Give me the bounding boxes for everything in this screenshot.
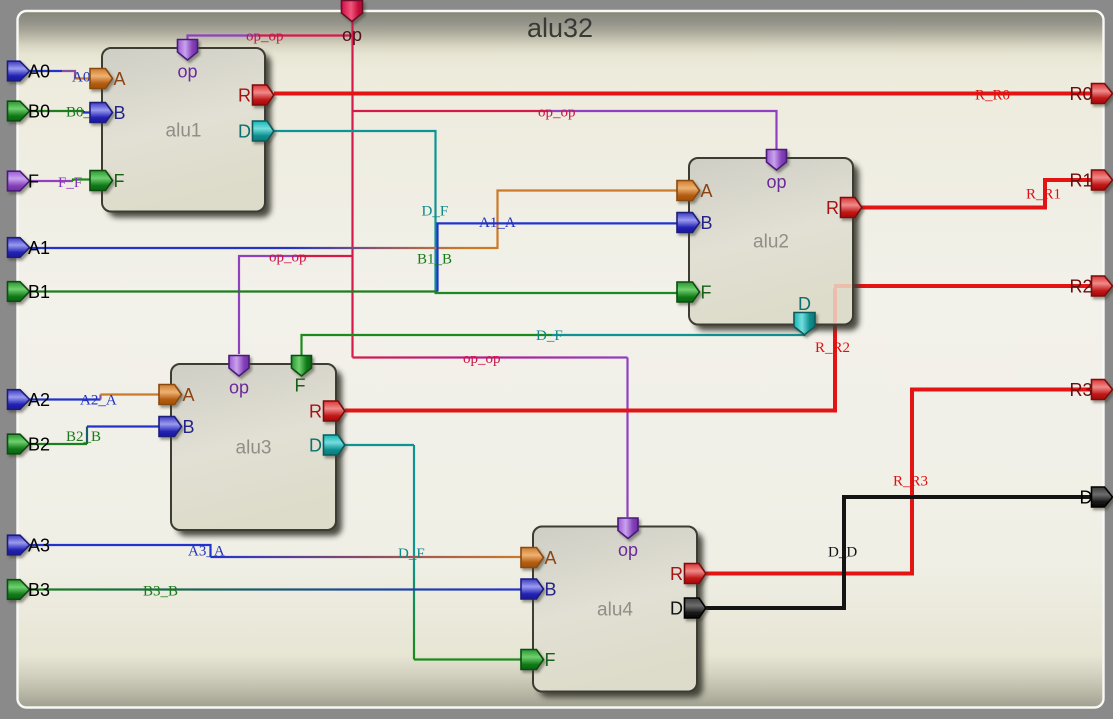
- svg-text:op_op: op_op: [246, 29, 284, 45]
- svg-text:B0: B0: [28, 102, 50, 122]
- wire A2_A: [27, 395, 162, 400]
- pin R of alu1: [253, 85, 274, 105]
- svg-text:R_R3: R_R3: [893, 474, 928, 490]
- port B0: [8, 101, 30, 121]
- wire D_D: [706, 497, 1092, 608]
- pin op of alu1: [178, 40, 198, 61]
- block alu2: [689, 158, 853, 325]
- svg-text:R0: R0: [1069, 84, 1092, 104]
- port B3: [8, 580, 30, 600]
- wire A3_A: [27, 545, 521, 557]
- svg-text:alu2: alu2: [753, 232, 789, 253]
- wire op_op to alu4 op: [353, 358, 628, 518]
- svg-text:op: op: [342, 25, 362, 45]
- pin R of alu4: [685, 564, 706, 584]
- port A1: [8, 238, 30, 258]
- port A3: [8, 535, 30, 555]
- port op (top): [342, 1, 363, 22]
- svg-text:R_R2: R_R2: [815, 340, 850, 356]
- port R3: [1092, 380, 1113, 400]
- svg-text:F: F: [545, 650, 556, 670]
- port A2: [8, 390, 30, 410]
- pin D of alu3: [324, 435, 345, 455]
- wire R_R2: [345, 286, 1092, 411]
- wire op_op to alu2 op: [353, 111, 777, 150]
- wire B2_B: [27, 427, 159, 445]
- svg-text:B1: B1: [28, 282, 50, 302]
- wire R_R1: [860, 180, 1092, 208]
- wire B0_B: [27, 111, 91, 113]
- svg-text:B2_B: B2_B: [66, 429, 101, 445]
- svg-text:D_D: D_D: [828, 545, 857, 561]
- svg-text:B1_B: B1_B: [417, 252, 452, 268]
- svg-text:B3_B: B3_B: [143, 584, 178, 600]
- pin A of alu1: [90, 69, 113, 89]
- pin F of alu2: [677, 282, 700, 302]
- svg-text:A1_A: A1_A: [479, 215, 516, 231]
- svg-text:R3: R3: [1069, 380, 1092, 400]
- svg-text:op_op: op_op: [538, 105, 576, 121]
- wire op_op to alu1 op: [188, 36, 353, 49]
- svg-text:D_F: D_F: [536, 328, 563, 344]
- pin B of alu4: [521, 579, 544, 599]
- svg-text:D: D: [238, 122, 251, 142]
- wire F_F: [27, 180, 91, 182]
- svg-text:R_R1: R_R1: [1026, 187, 1061, 203]
- block alu4: [533, 527, 697, 692]
- wire D_F alu1 D to alu2 F: [274, 131, 678, 293]
- port D: [1092, 487, 1113, 507]
- svg-text:R: R: [826, 198, 839, 218]
- block alu3 shadow: [177, 370, 342, 536]
- wire op net vertical from top port: [351, 21, 353, 358]
- svg-text:A3: A3: [28, 536, 50, 556]
- pin F of alu1: [90, 171, 113, 191]
- svg-text:op: op: [766, 172, 786, 192]
- wire B3_B: [27, 588, 521, 590]
- svg-text:R: R: [670, 564, 683, 584]
- wire R_R3: [706, 390, 1092, 574]
- wire B1_B: [27, 223, 678, 291]
- svg-text:A1: A1: [28, 238, 50, 258]
- svg-text:D_F: D_F: [422, 204, 449, 220]
- port A0: [8, 61, 30, 81]
- svg-text:F: F: [701, 283, 712, 303]
- svg-text:D: D: [670, 599, 683, 619]
- svg-text:B: B: [183, 417, 195, 437]
- svg-text:alu32: alu32: [527, 13, 593, 43]
- svg-text:A: A: [701, 181, 713, 201]
- wire D_F alu3 D to alu4 F: [345, 445, 521, 660]
- pin D of alu2 (bottom): [794, 313, 815, 335]
- svg-text:op: op: [618, 540, 638, 560]
- pin F of alu4: [521, 650, 544, 670]
- port R2: [1092, 276, 1113, 296]
- svg-text:R_R0: R_R0: [975, 88, 1010, 104]
- pin B of alu1: [90, 103, 113, 123]
- svg-text:op: op: [229, 378, 249, 398]
- block alu3: [171, 364, 336, 530]
- svg-text:op: op: [177, 62, 197, 82]
- svg-text:A2: A2: [28, 390, 50, 410]
- pin B of alu3: [159, 417, 182, 437]
- svg-text:A: A: [545, 548, 557, 568]
- svg-text:R1: R1: [1069, 171, 1092, 191]
- pin F of alu3 (top): [292, 356, 312, 377]
- svg-text:F: F: [28, 172, 39, 192]
- block alu4 shadow: [539, 533, 703, 698]
- pin op of alu4: [618, 518, 638, 539]
- port B2: [8, 434, 30, 454]
- svg-text:R: R: [238, 86, 251, 106]
- pin R of alu2: [841, 198, 862, 218]
- svg-text:alu1: alu1: [166, 121, 202, 142]
- wire op_op to alu3 op: [239, 256, 353, 354]
- svg-text:D: D: [798, 294, 811, 314]
- block alu1: [102, 48, 265, 212]
- block alu1 shadow: [108, 54, 271, 218]
- wire R_R0: [274, 92, 1092, 96]
- svg-text:op_op: op_op: [463, 351, 501, 367]
- block alu2 shadow: [695, 164, 859, 331]
- svg-text:B: B: [114, 103, 126, 123]
- pin B of alu2: [677, 213, 700, 233]
- svg-text:A: A: [183, 385, 195, 405]
- svg-text:D_F: D_F: [398, 546, 425, 562]
- pin A of alu3: [159, 385, 182, 405]
- pin op of alu2: [767, 150, 787, 171]
- svg-text:op_op: op_op: [269, 250, 307, 266]
- svg-text:B: B: [701, 213, 713, 233]
- svg-text:F: F: [114, 171, 125, 191]
- pin R of alu3: [324, 401, 345, 421]
- port R0: [1092, 84, 1113, 104]
- svg-text:R2: R2: [1069, 277, 1092, 297]
- pin A of alu4: [521, 548, 544, 568]
- wire D_F alu2 D to alu3 F: [302, 330, 805, 355]
- pin D of alu4: [685, 598, 706, 618]
- svg-text:R: R: [309, 402, 322, 422]
- pin D of alu1: [253, 121, 274, 141]
- svg-text:alu4: alu4: [597, 600, 633, 621]
- svg-text:A2_A: A2_A: [80, 393, 117, 409]
- svg-text:D: D: [309, 436, 322, 456]
- port F: [8, 171, 30, 191]
- faded R_R2 wire seen through alu2: [834, 286, 852, 323]
- svg-text:alu3: alu3: [236, 438, 272, 459]
- svg-text:B2: B2: [28, 435, 50, 455]
- svg-text:A3_A: A3_A: [188, 544, 225, 560]
- pin op of alu3: [229, 356, 249, 377]
- wire A0_A: [27, 71, 91, 79]
- svg-text:B: B: [545, 580, 557, 600]
- svg-text:B3: B3: [28, 580, 50, 600]
- svg-text:F_F: F_F: [58, 175, 82, 191]
- port B1: [8, 282, 30, 302]
- svg-text:D: D: [1080, 488, 1093, 508]
- wire A1_A: [27, 191, 678, 250]
- svg-text:F: F: [295, 376, 306, 396]
- svg-text:A: A: [114, 69, 126, 89]
- port R1: [1092, 170, 1113, 190]
- svg-text:A0: A0: [28, 62, 50, 82]
- pin A of alu2: [677, 181, 700, 201]
